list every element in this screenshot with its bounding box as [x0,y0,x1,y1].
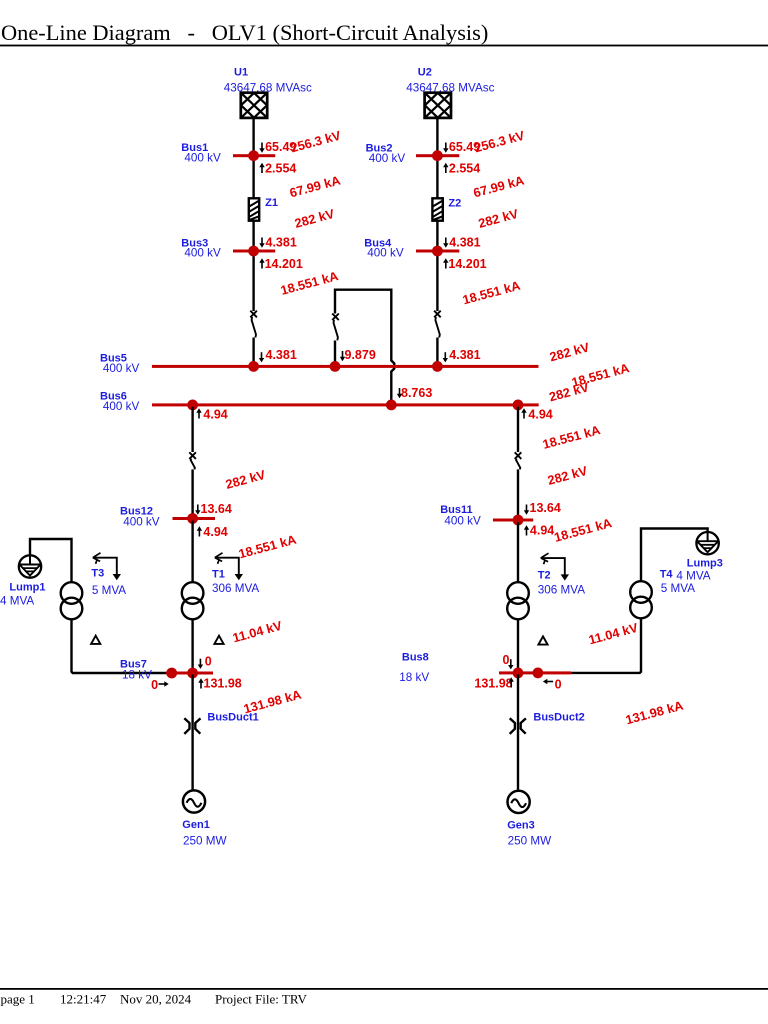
lumped load Lump3 [696,532,718,554]
svg-text:Lump1: Lump1 [9,582,45,594]
svg-text:306 MVA: 306 MVA [212,582,259,595]
arrow up below Bus8 [509,677,514,687]
svg-text:Z2: Z2 [448,198,461,210]
impedance Z2 [432,198,442,220]
delta symbol T2 [538,636,547,644]
svg-text:0: 0 [151,678,158,692]
wire Bus8 over and up to T4 [571,619,641,673]
svg-text:T1: T1 [212,568,225,580]
T1 fork arrow symbol [215,553,243,580]
junction dot Bus3 [248,246,259,257]
lumped load Lump1 [19,555,41,577]
junction dot Bus6 tie [386,400,397,411]
transformer T4 [630,581,652,618]
bus Bus4 [416,250,459,253]
bus Bus6 [152,403,539,406]
svg-text:282 kV: 282 kV [293,206,337,231]
svg-text:Nov 20, 2024: Nov 20, 2024 [120,992,192,1007]
bus Bus3 [233,250,275,253]
breaker CB1 [250,311,257,338]
svg-text:4.94: 4.94 [528,408,552,422]
junction dot Bus5-CB3 [330,361,341,372]
junction dot Bus5-CB1 [248,361,259,372]
bus Bus1 [233,154,275,157]
arrow down at Bus4 [443,238,448,248]
T2 fork arrow symbol [541,553,569,580]
wire Bus6 to breaker CB4 [191,407,193,452]
svg-text:Project File: TRV: Project File: TRV [215,992,307,1007]
svg-text:131.98: 131.98 [474,677,512,691]
svg-text:43647.68 MVAsc: 43647.68 MVAsc [224,81,312,94]
junction dot Bus12 [187,513,198,524]
wire breaker CB2 to Bus5 [436,338,438,365]
busway BusDuct2 [510,718,526,734]
utility U2 [425,93,451,118]
svg-text:18.551 kA: 18.551 kA [541,422,602,452]
svg-text:400 kV: 400 kV [103,362,140,375]
svg-text:4.381: 4.381 [449,235,480,249]
svg-text:400 kV: 400 kV [184,247,221,260]
wire breaker CB5 to Bus11 [517,469,519,518]
wire Bus11 to T2 [517,522,519,582]
svg-text:4.94: 4.94 [203,525,227,539]
transformer T2 [507,582,529,619]
svg-text:U1: U1 [234,67,248,79]
wire T3 down and over to Bus7 [72,619,168,673]
transformer T3 [61,582,83,619]
bus Bus2 [416,154,459,157]
wire T2 to Bus8 [517,619,519,671]
busway BusDuct1 [184,718,200,734]
svg-text:18 kV: 18 kV [122,669,152,682]
wire breaker CB3 to Bus5 [334,341,336,365]
wire U2 to Bus2 [436,118,438,154]
arrow left at Bus8 [543,679,553,684]
wire Bus7 to Gen1 [191,675,193,790]
svg-text:256.3 kV: 256.3 kV [289,128,343,156]
impedance Z1 [249,198,259,220]
svg-text:Gen3: Gen3 [507,820,535,832]
svg-text:0: 0 [205,655,212,669]
T3 fork arrow symbol [93,553,121,580]
wire Z2 to Bus4 [436,221,438,250]
svg-text:9.879: 9.879 [345,348,376,362]
svg-text:11.04 kV: 11.04 kV [231,618,284,646]
title underline [0,45,768,47]
arrow down at Bus1 [259,143,264,153]
arrow down at Bus5 middle [340,351,345,361]
svg-text:282 kV: 282 kV [477,206,521,231]
svg-text:2.554: 2.554 [265,162,296,176]
svg-text:T3: T3 [91,568,104,580]
svg-text:One-Line Diagram - OLV1 (S: One-Line Diagram - OLV1 (Short-Circuit A… [1,20,488,45]
arrow down at Bus5 left [259,352,264,362]
svg-text:Z1: Z1 [265,197,278,209]
svg-text:18.551 kA: 18.551 kA [461,278,522,308]
junction dot Bus11 [513,515,524,526]
wire Bus2 to Z2 [436,157,438,198]
wire Bus6 to breaker CB5 [517,407,519,452]
svg-text:282 kV: 282 kV [224,467,268,492]
svg-text:282 kV: 282 kV [548,339,592,364]
utility U1 [241,93,267,118]
svg-text:U2: U2 [418,67,432,79]
svg-text:Gen1: Gen1 [182,819,210,831]
svg-text:page 1: page 1 [1,992,35,1007]
wire breaker CB1 to Bus5 [252,338,254,365]
svg-text:4.381: 4.381 [449,348,480,362]
svg-text:2.554: 2.554 [449,162,480,176]
svg-text:0: 0 [555,678,562,692]
svg-text:13.64: 13.64 [201,502,232,516]
arrow down at Bus2 [443,143,448,153]
bus Bus12 [173,517,216,520]
arrow down at Bus3 [259,238,264,248]
arrow up below Bus6 left [196,408,201,418]
svg-text:13.64: 13.64 [530,501,561,515]
junction dot Bus8-T4 [533,668,544,679]
svg-text:4.94: 4.94 [530,524,554,538]
wire U1 to Bus1 [252,118,254,154]
breaker CB4 [189,452,196,469]
junction dot Bus6 right [513,400,524,411]
arrow up below Bus6 right [521,408,526,418]
svg-text:18.551 kA: 18.551 kA [279,268,340,298]
svg-text:250 MW: 250 MW [183,835,227,848]
svg-text:256.3 kV: 256.3 kV [473,128,527,156]
junction dot Bus5-CB2 [432,361,443,372]
svg-text:43647.68 MVAsc: 43647.68 MVAsc [406,81,494,94]
wire T4 up and over to Lump3 [641,529,708,582]
arrow down at Bus11 [524,505,529,515]
svg-text:4.381: 4.381 [266,235,297,249]
svg-text:400 kV: 400 kV [369,152,406,165]
svg-text:T2: T2 [538,570,551,582]
svg-text:306 MVA: 306 MVA [538,583,585,596]
svg-text:5 MVA: 5 MVA [661,582,695,595]
wire Lump1 riser and jog to T3 [30,539,72,582]
bus Bus7 [166,672,213,675]
breaker CB2 [434,311,441,338]
arrow up below Bus4 [443,258,448,268]
svg-text:400 kV: 400 kV [184,151,221,164]
wire Bus4 to breaker CB2 [436,253,438,312]
svg-text:18.551 kA: 18.551 kA [237,532,298,562]
arrow down at Bus8 [508,659,513,669]
wire Bus12 to T1 [191,521,193,583]
svg-text:282 kV: 282 kV [547,379,591,404]
wire tie jog horizontal [335,290,394,403]
arrow down at Bus12 [195,505,200,515]
wire Bus3 to breaker CB1 [252,253,254,312]
bus Bus8 [499,671,571,674]
breaker CB5 [515,452,522,469]
junction dot Bus4 [432,246,443,257]
svg-text:T4: T4 [660,568,674,580]
svg-text:131.98 kA: 131.98 kA [624,698,685,728]
svg-text:8.763: 8.763 [401,386,432,400]
svg-text:400 kV: 400 kV [103,400,140,413]
svg-text:131.98 kA: 131.98 kA [242,687,303,717]
breaker CB3 (tie) [332,314,339,341]
svg-text:5 MVA: 5 MVA [92,584,126,597]
svg-text:14.201: 14.201 [265,257,303,271]
junction dot Bus7-T3 [166,668,177,679]
junction dot Bus7-T1 [187,668,198,679]
wire Z1 to Bus3 [252,221,254,250]
transformer T1 [182,582,204,619]
svg-text:4 MVA: 4 MVA [676,570,710,583]
svg-text:400 kV: 400 kV [444,515,481,528]
delta symbol T1 [214,636,223,644]
svg-text:14.201: 14.201 [448,257,486,271]
arrow down at Bus7 [198,659,203,669]
svg-text:67.99 kA: 67.99 kA [288,172,342,200]
generator Gen3 [507,791,529,813]
bus Bus11 [493,519,533,522]
arrow up below Bus3 [259,258,264,268]
arrow up below Bus12 [197,526,202,536]
bus Bus5 [152,365,539,368]
junction dot Bus2 [432,150,443,161]
svg-text:18.551 kA: 18.551 kA [552,515,613,545]
svg-text:BusDuct2: BusDuct2 [533,712,584,724]
svg-text:250 MW: 250 MW [508,835,552,848]
svg-text:4 MVA: 4 MVA [0,595,34,608]
svg-text:400 kV: 400 kV [367,247,404,260]
wire T1 to Bus7 [191,619,193,671]
junction dot Bus1 [248,150,259,161]
arrow up below Bus7 [198,678,203,688]
arrow right at Bus7 [159,681,169,686]
wire Bus1 to Z1 [252,157,254,198]
svg-text:282 kV: 282 kV [546,463,590,488]
svg-text:4.381: 4.381 [266,348,297,362]
arrow up below Bus1 [259,163,264,173]
svg-text:Lump3: Lump3 [687,558,723,570]
svg-text:11.04 kV: 11.04 kV [587,620,640,648]
arrow up below Bus2 [443,163,448,173]
svg-text:Bus8: Bus8 [402,652,429,664]
svg-text:131.98: 131.98 [204,676,242,690]
arrow down at tie to Bus6 [397,388,402,398]
junction dot Bus6 left [187,400,198,411]
footer rule [0,988,768,990]
delta symbol T3 [91,636,100,644]
junction dot Bus8-T2 [513,668,524,679]
svg-text:4.94: 4.94 [203,408,227,422]
svg-text:0: 0 [503,653,510,667]
svg-text:67.99 kA: 67.99 kA [472,172,526,200]
svg-text:12:21:47: 12:21:47 [60,992,107,1007]
wire Bus8 to Gen3 [517,674,519,789]
arrow up below Bus11 [524,525,529,535]
generator Gen1 [183,790,205,812]
svg-text:400 kV: 400 kV [123,515,160,528]
wire breaker CB4 to Bus12 [191,469,193,517]
svg-text:18 kV: 18 kV [399,671,429,684]
arrow down at Bus5 right [443,352,448,362]
